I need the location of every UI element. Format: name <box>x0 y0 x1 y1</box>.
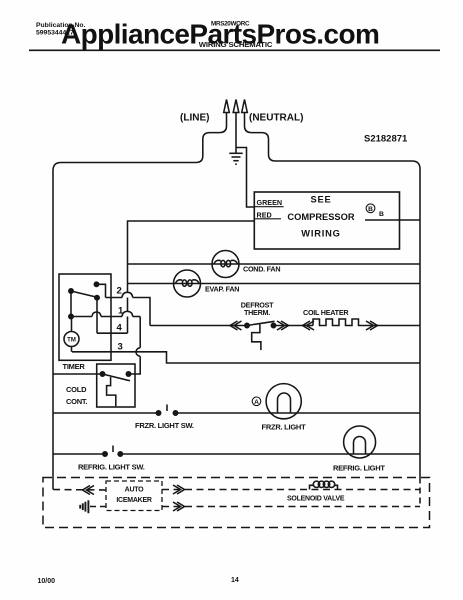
wire water symbol to icemaker (dashed) <box>90 506 106 508</box>
svg-text:MRS20WORC: MRS20WORC <box>211 21 250 28</box>
svg-text:B: B <box>368 206 373 213</box>
wire icemaker lower row (dashed) <box>162 506 420 508</box>
node A circled <box>252 397 261 406</box>
switch frzr light sw <box>156 405 177 416</box>
svg-text:SEE: SEE <box>310 195 331 205</box>
wire timer terminal 2 row <box>106 292 151 325</box>
switch refrig light sw <box>103 446 123 457</box>
heater element coil heater <box>313 319 365 326</box>
connector chevrons icemaker out bottom <box>173 502 185 511</box>
plug prong arrow (ground) <box>233 100 239 113</box>
label COLD CONT. <box>66 385 87 406</box>
svg-text:TIMER: TIMER <box>63 362 86 371</box>
svg-text:FRZR. LIGHT: FRZR. LIGHT <box>262 423 307 432</box>
title WIRING SCHEMATIC <box>199 40 273 49</box>
timer motor TM <box>64 314 79 352</box>
icemaker option dashed boundary box <box>43 478 430 528</box>
wire cold control to timer terminal 1 (hop over row 3) <box>131 317 141 375</box>
label GREEN <box>254 198 283 207</box>
timer switch arm <box>71 291 97 297</box>
plug prong arrow (neutral) <box>242 100 248 113</box>
svg-text:EVAP. FAN: EVAP. FAN <box>205 285 239 294</box>
wire condenser fan row <box>128 263 421 265</box>
label SEE COMPRESSOR WIRING <box>287 195 354 239</box>
wire compressor B to right bus <box>365 219 420 221</box>
svg-text:2: 2 <box>117 286 122 297</box>
svg-text:(LINE): (LINE) <box>180 113 209 124</box>
svg-text:WIRING SCHEMATIC: WIRING SCHEMATIC <box>199 40 273 49</box>
lamp frzr light <box>266 384 301 419</box>
wire defrost therm to heater <box>274 325 314 327</box>
cold control box <box>97 364 135 407</box>
svg-text:B: B <box>379 211 384 218</box>
footer date 10/00 <box>38 578 56 585</box>
wire left bus (line side) <box>52 171 54 490</box>
motor cond fan <box>212 251 239 278</box>
label RED <box>254 211 281 220</box>
connector chevrons icemaker feed <box>83 486 95 495</box>
svg-text:TM: TM <box>67 338 76 344</box>
svg-text:1: 1 <box>118 306 124 317</box>
svg-text:5995344417: 5995344417 <box>36 30 74 37</box>
diagram number S2182871 <box>364 134 408 145</box>
wire timer terminal column (to fans and compressor) <box>127 298 129 312</box>
label (NEUTRAL) <box>249 113 303 124</box>
connector chevrons left of coil heater <box>303 321 315 330</box>
svg-text:COMPRESSOR: COMPRESSOR <box>287 212 354 222</box>
wire icemaker to solenoid valve (dashed) <box>162 489 420 491</box>
wire timer terminal 1 row <box>71 311 140 316</box>
svg-text:COIL HEATER: COIL HEATER <box>303 308 349 317</box>
wire freezer light row <box>53 412 420 414</box>
wire timer terminal 3 row (timer motor to neutral) <box>72 352 420 363</box>
label AUTO ICEMAKER <box>116 487 152 505</box>
wire coil heater to right bus <box>365 325 420 327</box>
wire evaporator fan row <box>128 283 421 285</box>
motor evap fan <box>174 270 201 297</box>
svg-text:AUTO: AUTO <box>125 487 145 494</box>
timer contact upper <box>94 282 105 297</box>
svg-text:4: 4 <box>117 323 123 334</box>
timer box <box>59 274 111 360</box>
connector chevrons icemaker out top <box>173 485 185 494</box>
svg-text:14: 14 <box>231 577 239 584</box>
svg-text:WIRING: WIRING <box>301 229 340 239</box>
wire defrost row (terminal 2 to defrost thermostat) <box>150 325 247 327</box>
wire icemaker feed row (dashed) <box>53 489 106 492</box>
pin 3 <box>118 342 123 353</box>
water fill symbol <box>80 500 88 513</box>
wire right bus inside icemaker box (dashed) <box>419 478 421 507</box>
svg-text:SOLENOID VALVE: SOLENOID VALVE <box>287 496 345 503</box>
svg-text:RED: RED <box>257 211 272 220</box>
wire terminal column lower segment <box>127 317 129 334</box>
wire right bus (neutral side) <box>419 169 421 478</box>
lamp refrig light <box>344 426 376 458</box>
header rule <box>29 49 440 51</box>
svg-text:A: A <box>254 399 259 406</box>
svg-text:S2182871: S2182871 <box>364 134 408 145</box>
svg-text:FRZR. LIGHT SW.: FRZR. LIGHT SW. <box>135 421 194 430</box>
plug prong arrow (line) <box>224 100 230 113</box>
label TIMER <box>63 362 86 371</box>
label EVAP. FAN <box>205 285 239 294</box>
wire ground prong stem <box>235 112 237 153</box>
label FRZR. LIGHT SW. <box>135 421 194 430</box>
connector chevrons right of defrost therm <box>277 321 289 330</box>
wire timer terminal 4 row <box>97 332 128 334</box>
label COND. FAN <box>243 265 280 274</box>
svg-text:COND. FAN: COND. FAN <box>243 265 280 274</box>
wire green lead to compressor box <box>236 148 254 208</box>
connector chevrons left of defrost therm <box>230 321 242 330</box>
svg-text:THERM.: THERM. <box>244 308 270 317</box>
terminal B circled <box>366 204 384 218</box>
wire line cord (left prong to left bus) <box>53 113 227 171</box>
label DEFROST THERM. <box>241 301 274 317</box>
timer switch pivot <box>69 289 73 317</box>
svg-text:(NEUTRAL): (NEUTRAL) <box>249 113 303 124</box>
svg-text:Publication No.: Publication No. <box>36 22 86 29</box>
model number MRS20WORC <box>211 21 250 28</box>
solenoid valve coil <box>310 481 338 489</box>
pin 2 <box>117 286 122 297</box>
timer contact lower <box>95 296 99 334</box>
compressor box <box>254 192 399 249</box>
ground <box>229 153 242 164</box>
svg-text:3: 3 <box>118 342 123 353</box>
publication number block <box>36 22 86 37</box>
label SOLENOID VALVE <box>287 496 345 503</box>
svg-text:REFRIG. LIGHT SW.: REFRIG. LIGHT SW. <box>78 463 145 472</box>
label COIL HEATER <box>303 308 349 317</box>
svg-text:COLD: COLD <box>66 385 87 394</box>
pin 1 <box>118 306 124 317</box>
svg-text:ICEMAKER: ICEMAKER <box>116 497 152 504</box>
wire line feed to cold control <box>53 373 103 375</box>
label FRZR. LIGHT <box>262 423 307 432</box>
svg-text:CONT.: CONT. <box>66 397 87 406</box>
svg-text:GREEN: GREEN <box>257 198 283 207</box>
label REFRIG. LIGHT <box>333 464 385 473</box>
label REFRIG. LIGHT SW. <box>78 463 145 472</box>
svg-text:10/00: 10/00 <box>38 578 56 585</box>
wire red lead from compressor to timer terminal column <box>128 221 255 292</box>
connector chevrons right of coil heater <box>366 321 378 330</box>
watermark AppliancePartsPros.com <box>61 19 379 50</box>
pin 4 <box>117 323 123 334</box>
defrost thermostat switch <box>245 321 276 350</box>
wire neutral cord (right prong to right bus) <box>245 113 421 170</box>
wire refrigerator light row <box>53 453 420 455</box>
cold control switch <box>100 372 130 407</box>
svg-text:REFRIG. LIGHT: REFRIG. LIGHT <box>333 464 385 473</box>
label (LINE) <box>180 113 209 124</box>
auto icemaker box <box>106 481 162 511</box>
footer page 14 <box>231 577 239 584</box>
